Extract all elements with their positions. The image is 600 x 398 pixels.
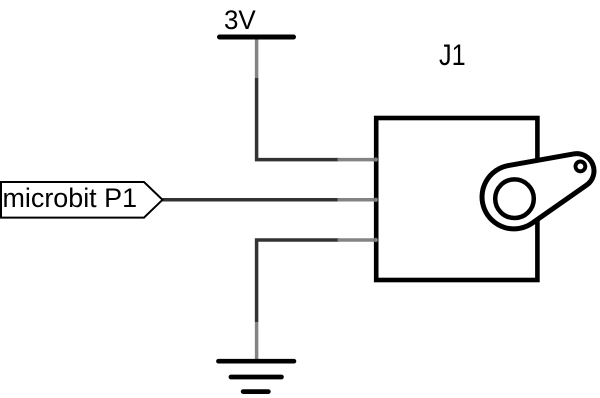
svg-text:microbit P1: microbit P1 bbox=[3, 183, 138, 213]
svg-text:3V: 3V bbox=[224, 5, 256, 36]
power symbol 3V: pin stub bbox=[255, 39, 259, 78]
servo horn hub ring bbox=[495, 179, 534, 218]
ground symbol: bar 3 bbox=[243, 389, 268, 394]
power symbol 3V: bar bbox=[220, 35, 294, 40]
connector box J1 bbox=[376, 118, 537, 280]
terminal dot pin2 bbox=[374, 198, 378, 202]
wire 3V vertical+horizontal to J1 pin1 bbox=[257, 78, 339, 160]
ground symbol: pin stub bbox=[255, 322, 259, 360]
net label flag: microbit P1 bbox=[1, 182, 163, 218]
svg-text:J1: J1 bbox=[439, 38, 466, 71]
ground symbol: bar 1 bbox=[218, 359, 294, 364]
terminal dot pin3 bbox=[374, 238, 378, 242]
pin 2 of J1 (signal) bbox=[338, 198, 377, 202]
ground symbol: bar 2 bbox=[231, 375, 281, 380]
servo horn outline bbox=[482, 154, 594, 229]
terminal dot pin1 bbox=[374, 157, 378, 161]
servo horn tip hole bbox=[576, 162, 586, 172]
wire J1 pin3 to ground bbox=[257, 240, 339, 322]
wire microbit P1 to J1 pin2 bbox=[163, 198, 340, 202]
pin 1 of J1 (3V) bbox=[338, 158, 377, 162]
pin 3 of J1 (GND) bbox=[338, 238, 377, 242]
